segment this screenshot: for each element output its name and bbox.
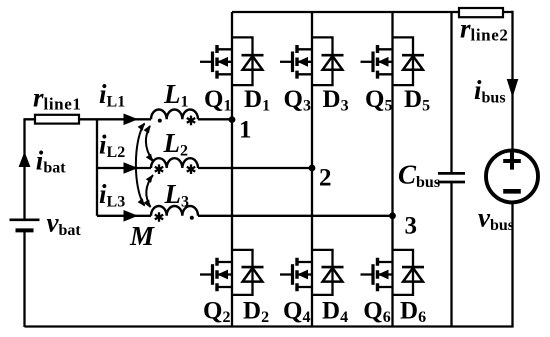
resistor r_line2: [459, 8, 503, 17]
svg-text:vbus: vbus: [478, 203, 514, 235]
wire right side lower: [511, 202, 513, 327]
inductor L2: [151, 158, 198, 168]
polarity star L2 right: [187, 164, 195, 174]
resistor r_line1: [35, 115, 79, 124]
wire leg1 vertical: [231, 12, 233, 327]
svg-text:Q1: Q1: [204, 86, 231, 115]
transistor Q4: [280, 258, 312, 292]
svg-text:iL1: iL1: [99, 79, 125, 111]
coupling arc M outer: [136, 124, 145, 206]
coupling arc M lower: [146, 175, 153, 207]
capacitor C_bus: [438, 173, 465, 182]
wire row1 left: [25, 118, 234, 120]
svg-text:D4: D4: [322, 298, 348, 327]
transistor Q2: [200, 258, 232, 292]
diode D2: [232, 250, 264, 295]
transistor Q1: [200, 45, 232, 79]
diode D3: [312, 37, 344, 85]
diode D1: [232, 37, 264, 85]
wire left vertical lower: [23, 230, 25, 327]
svg-text:3: 3: [405, 213, 418, 240]
voltage source v_bus: [486, 150, 538, 202]
svg-text:D1: D1: [244, 86, 270, 115]
svg-text:Cbus: Cbus: [398, 160, 440, 192]
current arrow i_L2: [124, 162, 139, 174]
transistor Q5: [361, 45, 393, 79]
wire top rail: [232, 11, 513, 13]
inductor L1: [151, 109, 198, 119]
polarity star L3 left: [155, 212, 163, 222]
transistor Q6: [361, 258, 393, 292]
battery v_bat: [10, 220, 40, 231]
wire right side upper: [511, 11, 513, 150]
svg-text:1: 1: [239, 117, 252, 144]
diode D5: [393, 37, 425, 85]
svg-text:vbat: vbat: [47, 208, 82, 240]
current arrow i_bat: [19, 152, 31, 168]
current arrow i_L3: [124, 210, 139, 222]
svg-text:Q2: Q2: [203, 298, 230, 327]
diode D4: [312, 250, 344, 295]
svg-text:D2: D2: [243, 298, 269, 327]
svg-text:Q3: Q3: [284, 86, 311, 115]
capacitor C_bus wire lower: [450, 182, 452, 327]
polarity dot L3: [190, 216, 194, 220]
svg-text:L3: L3: [164, 179, 190, 211]
current arrow i_bus: [507, 79, 519, 98]
node 1 junction: [229, 116, 236, 123]
polarity star L1: [187, 116, 195, 126]
svg-text:L2: L2: [163, 128, 189, 160]
svg-text:L1: L1: [163, 79, 189, 111]
capacitor C_bus wire upper: [450, 12, 452, 173]
node 3 junction: [389, 212, 396, 219]
svg-text:rline1: rline1: [33, 82, 81, 113]
coupling arc M upper: [146, 126, 153, 161]
svg-text:D6: D6: [400, 298, 426, 327]
svg-text:M: M: [129, 221, 155, 251]
wire leg3 vertical: [391, 12, 393, 327]
svg-text:iL2: iL2: [99, 130, 125, 162]
wire leg2 vertical: [311, 12, 313, 327]
svg-text:iL3: iL3: [99, 179, 125, 211]
svg-text:2: 2: [319, 165, 332, 192]
transistor Q3: [280, 45, 312, 79]
wire bottom rail: [25, 325, 514, 327]
svg-text:Q4: Q4: [283, 298, 310, 327]
svg-text:Q5: Q5: [365, 86, 392, 115]
wire left vertical upper: [23, 118, 25, 218]
polarity star L2 left: [155, 164, 163, 174]
wire row3 left: [97, 215, 394, 217]
diode D6: [393, 250, 425, 295]
svg-text:Q6: Q6: [363, 298, 390, 327]
svg-text:ibat: ibat: [36, 145, 66, 176]
polarity dot L1: [158, 119, 162, 123]
node 2 junction: [309, 165, 316, 172]
wire branch vertical: [96, 119, 98, 216]
svg-text:D5: D5: [404, 86, 430, 115]
svg-text:ibus: ibus: [474, 75, 506, 107]
wire row2 left: [97, 167, 313, 169]
current arrow i_L1: [124, 114, 139, 126]
inductor L3: [151, 206, 198, 216]
svg-text:D3: D3: [323, 86, 349, 115]
